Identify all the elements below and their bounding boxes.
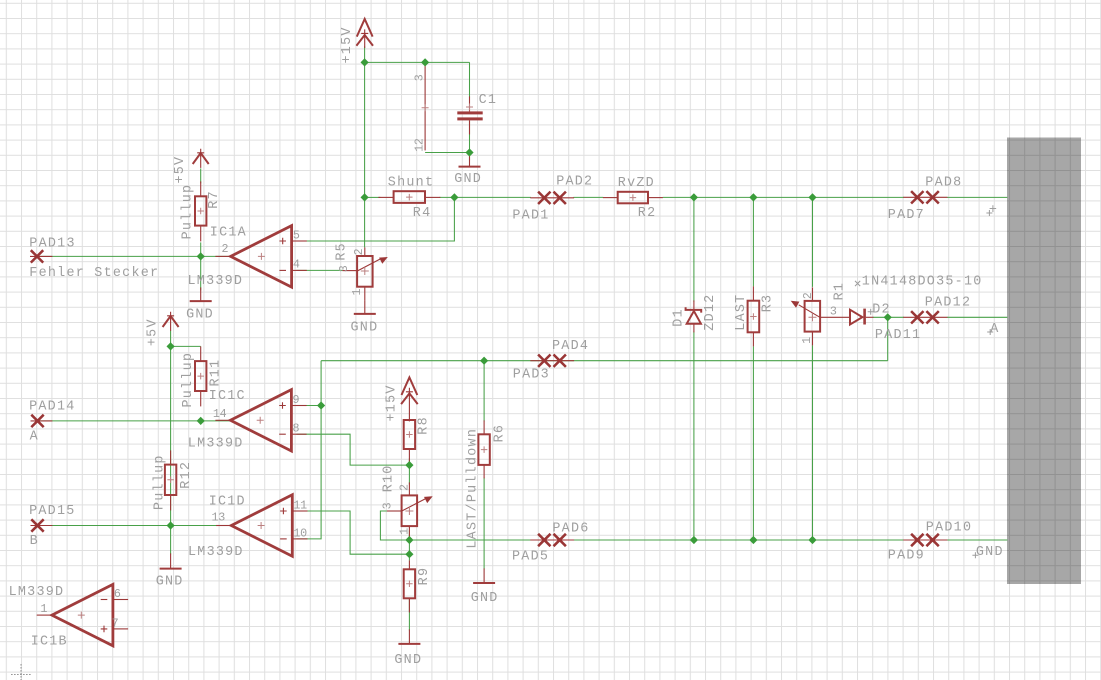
svg-text:1: 1	[397, 528, 411, 535]
node rail R3	[749, 193, 757, 201]
pad PAD13	[30, 250, 52, 262]
svg-text:LM339D: LM339D	[188, 545, 244, 560]
svg-text:6: 6	[114, 587, 121, 601]
resistor R3 LAST	[748, 286, 760, 346]
svg-text:GND: GND	[454, 172, 482, 187]
node D2/PAD11	[884, 313, 892, 321]
wire top horizontal to C1	[365, 61, 470, 63]
supply +5V lower	[163, 312, 179, 331]
svg-text:R5: R5	[334, 242, 349, 261]
svg-text:11: 11	[293, 498, 307, 512]
svg-text:IC1B: IC1B	[31, 634, 68, 649]
wire D1 vertical	[693, 197, 695, 302]
op-amp IC1A	[215, 226, 306, 288]
wire R6 junction to GND	[483, 540, 485, 569]
resistor R2 RvZD	[603, 192, 663, 204]
svg-text:PAD13: PAD13	[29, 236, 75, 251]
wire PAD13 to IC1A output	[37, 255, 231, 257]
svg-text:10: 10	[293, 526, 307, 540]
svg-text:PAD1: PAD1	[512, 208, 549, 223]
svg-text:PAD11: PAD11	[875, 328, 921, 343]
text origin cross A connector	[987, 329, 993, 335]
svg-text:3: 3	[380, 502, 394, 509]
svg-text:PAD5: PAD5	[512, 550, 549, 565]
svg-text:PAD3: PAD3	[513, 368, 550, 383]
node rail/R4 left	[361, 193, 369, 201]
svg-text:A: A	[30, 430, 39, 445]
svg-text:1: 1	[800, 337, 814, 344]
pad PAD14	[31, 415, 53, 427]
wire R10 wiper to bottom rail	[380, 511, 409, 540]
svg-text:R10: R10	[382, 464, 397, 492]
node bottom rail D1	[690, 536, 698, 544]
node rail/R4 right	[450, 193, 458, 201]
wire vertical x320 to IC1D pin10	[296, 361, 321, 539]
svg-text:R1: R1	[833, 282, 848, 301]
op-amp IC1D	[216, 495, 307, 556]
svg-text:PAD12: PAD12	[925, 296, 971, 311]
node power pin	[421, 58, 429, 66]
trimmer R1	[791, 287, 851, 345]
IC1 power pin (3/12)	[422, 64, 429, 150]
svg-text:PAD7: PAD7	[888, 208, 925, 223]
node rail R1	[808, 193, 816, 201]
ground under R5	[354, 300, 376, 314]
node rail D1	[690, 193, 698, 201]
wire R6 top	[483, 361, 485, 422]
resistor R11	[195, 346, 206, 406]
wire C1 bottom to GND	[469, 120, 471, 160]
zener diode D1	[686, 300, 702, 332]
node pin11 net	[405, 550, 413, 558]
wire PAD14 to IC1C	[37, 420, 230, 422]
wire R1 vertical	[812, 197, 814, 287]
svg-text:ZD12: ZD12	[703, 294, 718, 331]
wire R6 bottom	[483, 477, 485, 540]
pads PAD1 PAD2	[530, 192, 574, 204]
wire IC1D pin11 to node	[296, 511, 409, 554]
svg-text:3: 3	[830, 304, 837, 318]
svg-text:B: B	[30, 534, 39, 549]
wire R4 right to IC1A pin5	[296, 197, 454, 241]
svg-text:1: 1	[350, 289, 364, 296]
svg-text:R7: R7	[207, 190, 222, 209]
pads PAD7 PAD8	[903, 191, 947, 203]
svg-text:GND: GND	[471, 591, 499, 606]
svg-text:2: 2	[352, 248, 366, 255]
ground under C1	[459, 153, 481, 167]
wire PAD11 junction down	[887, 317, 889, 360]
svg-text:A: A	[990, 322, 999, 337]
resistor R6	[478, 420, 489, 478]
svg-text:R2: R2	[638, 206, 657, 221]
svg-text:2: 2	[222, 242, 229, 256]
svg-text:2: 2	[801, 292, 815, 299]
svg-text:Pullup: Pullup	[181, 184, 196, 240]
node R10 bottom	[405, 536, 413, 544]
svg-text:GND: GND	[186, 308, 214, 323]
svg-text:IC1A: IC1A	[210, 225, 247, 240]
svg-text:PAD10: PAD10	[926, 521, 972, 536]
wire D2 cathode to PAD11 net	[873, 316, 904, 318]
svg-text:+15V: +15V	[340, 26, 355, 63]
svg-text:LM339D: LM339D	[188, 437, 244, 452]
svg-text:Fehler Stecker: Fehler Stecker	[29, 266, 159, 281]
wire PAD15 junction to GND	[170, 526, 172, 555]
svg-text:PAD6: PAD6	[552, 522, 589, 537]
svg-text:GND: GND	[394, 653, 422, 668]
pads PAD5 PAD6	[530, 534, 574, 546]
trimmer R10	[387, 482, 433, 540]
svg-text:C1: C1	[479, 93, 498, 108]
svg-text:GND: GND	[976, 545, 1004, 560]
wire R7 junction to GND	[200, 242, 202, 290]
ground under R6	[473, 568, 495, 583]
capacitor C1	[457, 96, 482, 134]
pads PAD9 PAD10	[903, 534, 947, 546]
svg-text:Pullup: Pullup	[152, 454, 167, 510]
svg-text:7: 7	[112, 616, 119, 630]
node PAD15/R12	[167, 521, 175, 529]
svg-text:8: 8	[293, 422, 300, 436]
node PAD14/R11	[197, 417, 205, 425]
svg-text:PAD2: PAD2	[556, 175, 593, 190]
svg-text:R9: R9	[417, 567, 432, 586]
node R8/R10	[405, 461, 413, 469]
svg-text:14: 14	[213, 407, 227, 421]
svg-text:R11: R11	[208, 359, 223, 387]
svg-text:R6: R6	[493, 424, 508, 443]
node bottom rail R1	[808, 536, 816, 544]
svg-text:PAD14: PAD14	[29, 399, 75, 414]
svg-text:Pullup: Pullup	[181, 352, 196, 408]
supply +5V upper	[193, 149, 209, 168]
wire horizontal net y360	[321, 360, 888, 362]
svg-text:+15V: +15V	[385, 384, 400, 421]
connector gray rectangle	[1007, 138, 1081, 585]
wire +5V vertical to PAD15 junction	[170, 346, 172, 525]
svg-text:5: 5	[293, 228, 300, 242]
node bottom rail R3	[749, 536, 757, 544]
wire IC1A pin4 to R5 wiper	[296, 269, 342, 271]
wire +15V vertical rail top	[364, 46, 366, 247]
diode D2	[850, 309, 873, 325]
node R6 top	[480, 357, 488, 365]
wire C1 top	[469, 62, 471, 97]
svg-text:PAD4: PAD4	[552, 339, 589, 354]
op-amp IC1C	[215, 390, 306, 451]
svg-text:9: 9	[293, 393, 300, 407]
svg-text:PAD8: PAD8	[925, 176, 962, 191]
wire R8 bottom to R10 top	[408, 458, 410, 484]
svg-text:13: 13	[212, 511, 226, 525]
svg-text:12: 12	[412, 138, 426, 152]
svg-text:LM339D: LM339D	[9, 585, 65, 600]
ground under IC1A junction	[190, 287, 212, 301]
wire R3 vertical	[752, 197, 754, 286]
supply +15V top	[356, 19, 373, 48]
text origin cross 1N4148	[855, 281, 860, 286]
op-amp IC1B	[37, 584, 128, 645]
svg-text:+5V: +5V	[173, 156, 188, 184]
svg-text:R12: R12	[179, 461, 194, 489]
svg-text:R4: R4	[413, 206, 432, 221]
wire +5V to R7	[200, 168, 202, 183]
wire IC1C pin9	[296, 405, 321, 407]
svg-text:1: 1	[40, 602, 47, 616]
svg-text:IC1C: IC1C	[209, 389, 246, 404]
text origin cross D2	[868, 309, 874, 315]
wire IC1C pin8 to R8/R10 node	[296, 434, 409, 465]
wire +5V lower stem	[170, 330, 172, 346]
svg-text:GND: GND	[351, 320, 379, 335]
svg-text:PAD9: PAD9	[888, 549, 925, 564]
ground under IC1D junction	[160, 553, 182, 568]
svg-text:+: +	[989, 203, 998, 218]
pads PAD11 PAD12	[903, 311, 947, 323]
node +15V rail	[361, 58, 369, 66]
text origin cross GND connector	[972, 552, 978, 558]
svg-text:3: 3	[412, 74, 426, 81]
wire main rail y197	[365, 196, 381, 198]
wire R9 bottom to GND	[408, 598, 410, 630]
svg-text:R8: R8	[417, 416, 432, 435]
resistor R4 Shunt	[378, 191, 440, 203]
trimmer R5	[342, 247, 387, 300]
pads PAD3 PAD4	[530, 355, 574, 367]
node IC1C pin9	[317, 401, 325, 409]
resistor R12	[165, 450, 176, 510]
text origin cross + connector	[986, 210, 992, 216]
wire +5V junction to R11	[171, 345, 201, 347]
svg-text:LAST: LAST	[734, 294, 749, 331]
wire bottom rail y540	[409, 539, 531, 541]
svg-text:R3: R3	[760, 294, 775, 313]
ground under R9	[398, 629, 420, 644]
origin cross bottom-left	[11, 664, 31, 680]
node C1 bottom	[465, 148, 473, 156]
svg-text:D1: D1	[672, 308, 687, 327]
supply +15V lower	[401, 377, 418, 421]
svg-text:2: 2	[398, 484, 412, 491]
node IC1A input	[197, 252, 205, 260]
wire R10 bottom to junctions	[408, 530, 410, 560]
svg-text:RvZD: RvZD	[618, 176, 655, 191]
svg-text:3: 3	[337, 265, 351, 272]
svg-text:+5V: +5V	[146, 318, 161, 346]
wire power pin bottom to C1 bottom	[425, 152, 469, 154]
svg-text:LAST/Pulldown: LAST/Pulldown	[466, 428, 481, 549]
svg-text:GND: GND	[156, 575, 184, 590]
svg-text:PAD15: PAD15	[29, 504, 75, 519]
svg-text:IC1D: IC1D	[209, 494, 246, 509]
svg-text:D2: D2	[872, 303, 891, 318]
pad PAD15	[31, 519, 53, 531]
resistor R8	[404, 420, 415, 465]
wire PAD15 to IC1D	[37, 525, 231, 527]
resistor R7	[195, 181, 206, 241]
resistor R9	[404, 560, 415, 612]
node +5V lower	[167, 342, 175, 350]
svg-text:Shunt: Shunt	[388, 176, 434, 191]
svg-text:1N4148DO35-10: 1N4148DO35-10	[862, 275, 983, 290]
svg-text:LM339D: LM339D	[188, 274, 244, 289]
svg-text:4: 4	[293, 258, 300, 272]
